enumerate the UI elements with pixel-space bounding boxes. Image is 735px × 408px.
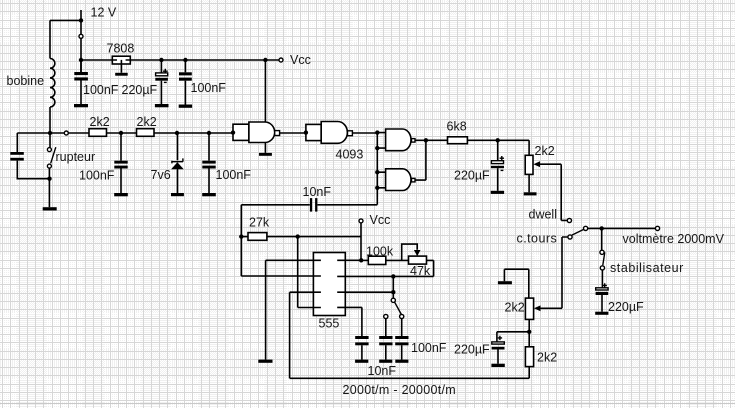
svg-text:2k2: 2k2 (90, 115, 110, 129)
connector circle Vcc (279, 58, 283, 62)
node rail at gate supply (263, 58, 267, 62)
label 100nF filter (79, 168, 115, 182)
label 220uF rail cap (122, 83, 158, 97)
svg-text:220µF: 220µF (454, 168, 490, 182)
ground gate1 (259, 153, 272, 156)
capacitor 100nF timing A (379, 319, 392, 363)
svg-text:100nF: 100nF (83, 83, 119, 97)
resistor 27k (241, 233, 361, 241)
label 27k (249, 216, 270, 230)
potentiometer 47k wiper bracket (402, 244, 421, 260)
svg-text:stabilisateur: stabilisateur (610, 261, 684, 275)
wire main row to R1 (68, 132, 89, 134)
svg-text:voltmètre 2000mV: voltmètre 2000mV (623, 232, 725, 246)
pin 555 right 3 (337, 291, 393, 293)
svg-text:2k2: 2k2 (505, 301, 525, 315)
svg-text:100nF: 100nF (79, 168, 115, 182)
wire dwell pot ground (528, 174, 530, 192)
node 220uF dwell tap (496, 138, 500, 142)
wire gate1 output (280, 132, 306, 134)
capacitor 220uF dwell electrolytic (491, 140, 504, 194)
label 6k8 (447, 120, 467, 134)
wire primary loop left (17, 133, 64, 152)
svg-text:220µF: 220µF (608, 300, 644, 314)
capacitor 100nF filter (114, 133, 128, 196)
svg-text:12 V: 12 V (91, 6, 117, 20)
wire c.tours to rpm pot wiper (540, 237, 568, 308)
ground rpm pot top (498, 281, 512, 284)
node bus gate4 input A (375, 170, 379, 174)
svg-text:rupteur: rupteur (56, 150, 96, 164)
capacitor 100nF gate input (202, 133, 216, 196)
label c.tours (517, 232, 558, 246)
resistor 2k2 first (89, 129, 107, 137)
connector circle Vcc 555 (359, 219, 363, 223)
svg-text:2k2: 2k2 (535, 144, 555, 158)
label 555 (319, 317, 340, 331)
svg-text:2k2: 2k2 (137, 115, 157, 129)
node 27k left (239, 234, 243, 238)
svg-text:2000t/m - 20000t/m: 2000t/m - 20000t/m (343, 383, 456, 397)
switch timing cap selector (384, 298, 404, 318)
svg-text:2k2: 2k2 (537, 350, 557, 364)
wire 27k right down to 555 pin (297, 237, 299, 308)
wire between 2k2 resistors (107, 132, 137, 134)
node gate1 input (231, 130, 235, 134)
svg-text:Vcc: Vcc (290, 53, 311, 67)
svg-text:220µF: 220µF (122, 83, 158, 97)
pin 555 left 2 (241, 275, 321, 277)
label 100nF rail cap (191, 81, 227, 95)
wire to zener node (154, 132, 233, 134)
svg-text:4093: 4093 (336, 147, 364, 161)
label Vcc 555 (370, 213, 391, 227)
pin 555 left 3 (290, 291, 321, 293)
connector circle on 12V line (79, 34, 83, 38)
label 2k2 rpm lower (537, 350, 557, 364)
label 2k2 dwell pot (535, 144, 555, 158)
capacitor 10nF oscillator coupling (241, 198, 377, 212)
label voltmetre 2000mV (623, 232, 725, 246)
switch rupteur (47, 133, 55, 207)
node bus gate3 input A (375, 130, 379, 134)
svg-text:Vcc: Vcc (370, 213, 391, 227)
svg-text:47k: 47k (410, 264, 431, 278)
potentiometer 2k2 rpm (525, 298, 540, 319)
label 10nF timing (368, 364, 397, 378)
capacitor 220uF rail electrolytic (155, 60, 169, 107)
pin 555 right 4 (337, 307, 362, 336)
svg-text:dwell: dwell (529, 208, 558, 222)
node 12V rail junction at regulator input (79, 58, 83, 62)
capacitor 100nF input (74, 60, 88, 107)
node 27k right (296, 234, 300, 238)
capacitor 10nF timing (355, 336, 369, 363)
wire rpm pot bottom (528, 319, 530, 346)
svg-text:100k: 100k (366, 245, 394, 259)
connector circle voltmeter (655, 226, 659, 230)
label 2k2 first (90, 115, 110, 129)
node zener tap (175, 131, 179, 135)
svg-text:100nF: 100nF (216, 168, 252, 182)
ground 555 (258, 360, 272, 363)
label 100k (366, 245, 394, 259)
label rpm range (343, 383, 456, 397)
label 47k (410, 264, 431, 278)
pin 555 left 1 (266, 259, 321, 261)
label 220uF rpm (454, 343, 490, 357)
wire bobine to main row (49, 107, 51, 133)
wire junction to 220uF rpm (497, 332, 529, 342)
label 12 V (91, 6, 117, 20)
label 7808 (107, 42, 135, 56)
node bus gate3 input B (375, 146, 379, 150)
node Vcc 100k junction (359, 258, 363, 262)
node gate input filter tap (207, 131, 211, 135)
node rail at 220uF (159, 58, 163, 62)
node bobine main row (48, 131, 52, 135)
svg-text:100nF: 100nF (411, 341, 447, 355)
svg-text:7808: 7808 (107, 42, 135, 56)
node stabilizer tap (600, 226, 604, 230)
svg-text:bobine: bobine (7, 74, 45, 88)
capacitor condensateur rupteur (10, 152, 49, 179)
svg-text:27k: 27k (249, 216, 270, 230)
timer 555 body (313, 253, 345, 316)
switch mode selector lever (572, 229, 584, 235)
wire gate3 gate4 outputs joined (415, 140, 426, 180)
nand gate U1C 4093 (377, 129, 415, 151)
connector circle c.tours (568, 235, 572, 239)
node 555 threshold junction (391, 274, 395, 278)
resistor 2k2 rpm lower (525, 347, 533, 367)
wire gate3-4 input bus (376, 133, 378, 205)
nand gate U1D 4093 (377, 169, 415, 191)
wire 2k2 lower to feedback line (528, 367, 530, 379)
node junction 12V to bobine (79, 18, 83, 22)
label 4093 (336, 147, 364, 161)
label 10nF oscillator (303, 185, 332, 199)
pin 555 left 4 (298, 307, 321, 309)
wire Vcc rail (131, 59, 279, 61)
node gate2 input (304, 130, 308, 134)
wire regulator input (81, 59, 113, 61)
wire gate2 output to bus (352, 132, 377, 134)
capacitor 100nF timing B (395, 319, 408, 363)
capacitor 220uF rpm electrolytic (491, 336, 504, 367)
label 2k2 second (137, 115, 157, 129)
pin 555 right 2 (337, 275, 433, 277)
svg-text:10nF: 10nF (368, 364, 397, 378)
svg-text:7v6: 7v6 (151, 168, 171, 182)
wire 12V to bobine branch (50, 20, 81, 58)
bottom ruling line (0, 403, 735, 405)
label 100nF timing (411, 341, 447, 355)
wire 10nF down to 27k (240, 205, 242, 276)
wire junction to 6k8 (426, 139, 448, 141)
node rupteur bottom (47, 177, 51, 181)
resistor 2k2 second (137, 129, 155, 137)
node gate outputs junction (424, 138, 428, 142)
nand gate U1A 4093 (233, 122, 280, 143)
node 100nF filter tap (119, 131, 123, 135)
label 100nF input cap (83, 83, 119, 97)
wire 555 output down (290, 292, 530, 378)
svg-text:555: 555 (319, 317, 340, 331)
nand gate U1B 4093 (306, 122, 353, 144)
resistor 6k8 (448, 137, 468, 144)
capacitor 100nF rail (179, 60, 192, 108)
svg-text:6k8: 6k8 (447, 120, 467, 134)
label Vcc top (290, 53, 311, 67)
capacitor 220uF stabilizer electrolytic (595, 270, 608, 315)
svg-text:220µF: 220µF (454, 343, 490, 357)
connector circle selector common (584, 226, 588, 230)
wire 6k8 to dwell pot (467, 140, 529, 155)
wire Vcc stub into gate1 (264, 60, 266, 122)
potentiometer 47k (409, 256, 434, 276)
wire gate1 ground stub (264, 143, 266, 153)
ground dwell pot (524, 192, 537, 195)
resistor 100k (361, 256, 408, 264)
connector circle dwell (567, 218, 571, 222)
wire 12V supply vertical (80, 10, 82, 72)
label 100nF gate input (216, 168, 252, 182)
label dwell (529, 208, 558, 222)
wire 555 ground pin (265, 260, 267, 359)
regulator 7808 (112, 56, 130, 76)
label stabilisateur (610, 261, 684, 275)
node rail at 100nF (183, 58, 187, 62)
label 2k2 rpm pot (505, 301, 525, 315)
label 220uF stabilizer (608, 300, 644, 314)
label 7v6 (151, 168, 171, 182)
node rpm divider junction (527, 330, 531, 334)
node bus gate4 input B (375, 186, 379, 190)
svg-text:c.tours: c.tours (517, 232, 558, 246)
svg-text:10nF: 10nF (303, 185, 332, 199)
connector circle main row (64, 131, 68, 135)
switch stabilisateur (600, 228, 605, 270)
ground rupteur (43, 207, 57, 210)
potentiometer 2k2 dwell (525, 155, 567, 220)
wire selector common to voltmeter (588, 227, 656, 229)
wire threshold down to switch (392, 276, 394, 298)
label 220uF dwell (454, 168, 490, 182)
label bobine (7, 74, 45, 88)
label rupteur (56, 150, 96, 164)
wire Vcc down to 100k (360, 223, 362, 260)
node 555 trigger junction (391, 290, 395, 294)
pin 555 right 1 (337, 259, 361, 261)
inductor bobine (50, 59, 55, 108)
svg-text:100nF: 100nF (191, 81, 227, 95)
wire rpm pot top to ground (504, 269, 528, 298)
zener diode 7v6 (171, 133, 184, 196)
